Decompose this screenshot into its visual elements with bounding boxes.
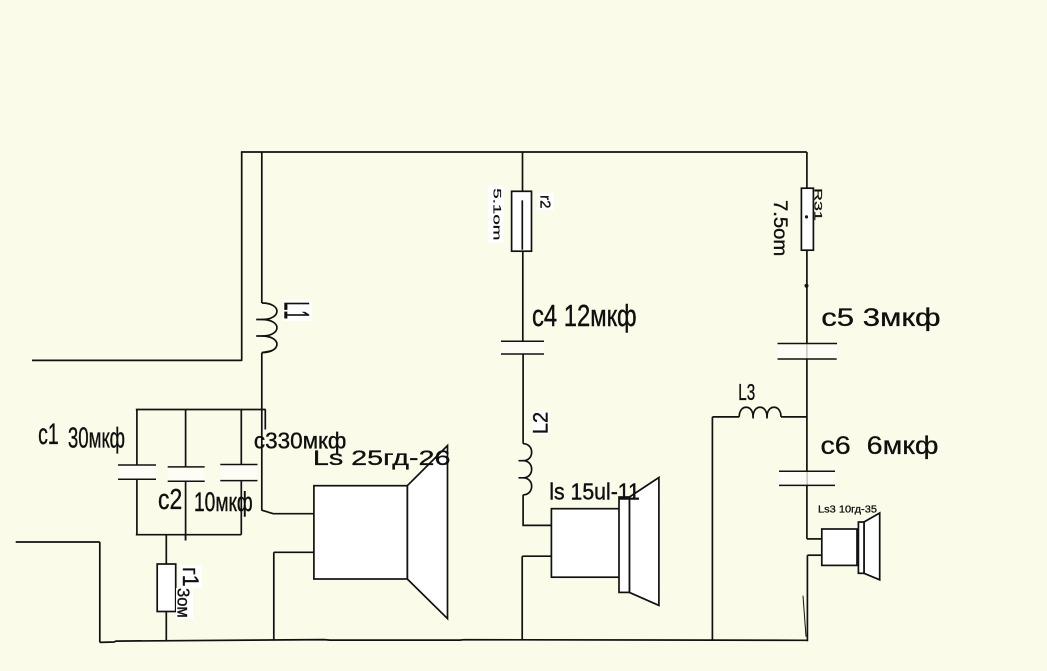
- wire L3 branch left: [712, 416, 739, 418]
- capacitor C2: [168, 410, 205, 541]
- stray stroke: [803, 596, 806, 637]
- wire R31 to c5: [806, 250, 808, 343]
- svg-text:R31: R31: [811, 188, 823, 221]
- svg-text:г1: г1: [178, 567, 204, 587]
- wire top rail: [241, 151, 807, 153]
- label L1 white backing: [283, 300, 312, 321]
- wire c4 to L2: [522, 354, 524, 444]
- stub below C2: [185, 535, 187, 541]
- label c5 3мкф: [821, 304, 940, 333]
- wire L2 to midrange: [523, 495, 551, 526]
- capacitor C6: [779, 471, 835, 485]
- wire tweeter plus: [807, 538, 822, 540]
- svg-text:L2: L2: [529, 412, 553, 434]
- label c2: [158, 485, 182, 516]
- wire to woofer plus: [262, 510, 314, 514]
- label г1 white backing: [179, 565, 202, 588]
- svg-text:c1: c1: [38, 418, 59, 451]
- label 3ом white backing: [176, 588, 193, 619]
- label L2 white backing: [532, 411, 550, 434]
- svg-text:c2: c2: [158, 485, 182, 516]
- capacitor C5: [778, 344, 838, 360]
- speaker LS2 horn: [629, 478, 659, 606]
- wire L1 branch upper: [261, 152, 263, 303]
- wire tweeter minus drop: [806, 555, 808, 641]
- label c3 30мкф: [254, 427, 346, 454]
- inductor L1: [256, 303, 277, 353]
- label 7.5om: [769, 200, 790, 256]
- label c1: [38, 418, 59, 451]
- inductor L2: [519, 444, 532, 495]
- wire woofer minus drop: [273, 552, 275, 640]
- capacitor bank top wire: [136, 409, 266, 411]
- wire r2 to c4: [522, 251, 524, 341]
- label 5.1om: [490, 188, 502, 240]
- label L2: [529, 412, 553, 434]
- wire woofer minus: [274, 551, 314, 553]
- label ls 15ul-11: [549, 479, 640, 505]
- wire c5 to c6: [806, 359, 808, 471]
- svg-text:3ом: 3ом: [173, 588, 192, 618]
- speaker LS1 woofer body: [314, 486, 407, 579]
- wire bottom rail: [100, 640, 807, 643]
- stub at bank top right: [264, 410, 266, 430]
- resistor R1 lead top: [165, 535, 167, 564]
- label c6 6мкф: [820, 432, 938, 460]
- resistor R31 (7.5om): [801, 188, 813, 250]
- wire midrange minus drop: [521, 556, 523, 640]
- resistor R2 (5.1om): [512, 191, 532, 251]
- svg-text:c4 12мкф: c4 12мкф: [532, 298, 637, 333]
- wire c6 to tweeter: [806, 485, 808, 539]
- wire input plus riser: [241, 152, 243, 361]
- label Ls3 10гд-35: [818, 504, 877, 516]
- wire midrange minus: [522, 555, 551, 557]
- speaker LS2 magnet bar: [619, 497, 629, 592]
- speaker LS3 horn: [864, 513, 880, 580]
- svg-text:L3: L3: [738, 380, 755, 406]
- label 3ом: [173, 588, 192, 618]
- resistor R31 dot: [805, 215, 808, 218]
- svg-text:7.5om: 7.5om: [769, 200, 790, 256]
- label L1: [277, 302, 317, 320]
- svg-text:ls 15ul-11: ls 15ul-11: [549, 479, 640, 505]
- speaker LS3 magnet bar: [858, 522, 864, 573]
- label г1: [178, 567, 204, 587]
- wire r2 branch: [522, 152, 524, 191]
- capacitor C4: [501, 341, 544, 354]
- speaker LS3 tweeter body: [822, 529, 857, 565]
- wire L3 drop: [711, 417, 713, 641]
- label L3: [738, 380, 755, 406]
- svg-text:r2: r2: [536, 195, 553, 208]
- svg-text:L1: L1: [277, 302, 317, 320]
- wire tweeter minus: [807, 554, 821, 556]
- label c2 value 10мкф: [194, 487, 253, 517]
- speaker LS1 woofer horn: [407, 446, 447, 619]
- speaker LS2 midrange body: [551, 509, 622, 578]
- wire L3 branch right: [781, 416, 807, 418]
- svg-text:5.1om: 5.1om: [490, 188, 502, 240]
- inductor L3: [739, 407, 781, 418]
- capacitor bank bottom wire: [136, 534, 242, 536]
- wire R31 branch: [806, 152, 808, 188]
- wire input plus terminal: [32, 359, 242, 361]
- svg-text:30мкф: 30мкф: [68, 423, 125, 455]
- label 5.1om white backing: [488, 185, 504, 243]
- label Ls 25гд-26: [313, 446, 451, 470]
- svg-text:Ls 25гд-26: Ls 25гд-26: [313, 446, 451, 470]
- resistor R1 lead bottom: [165, 612, 167, 641]
- label c1 value 30мкф: [68, 423, 125, 455]
- label r2 white backing: [537, 193, 554, 210]
- junction dot: [805, 284, 809, 288]
- wire input minus riser: [99, 542, 101, 642]
- capacitor C3: [220, 410, 257, 535]
- svg-text:c5 3мкф: c5 3мкф: [821, 304, 940, 333]
- svg-text:Ls3 10гд-35: Ls3 10гд-35: [818, 504, 877, 516]
- label R31: [811, 188, 823, 221]
- label c4 12мкф: [532, 298, 637, 333]
- svg-text:c6 6мкф: c6 6мкф: [820, 432, 938, 460]
- wire input minus terminal: [16, 541, 100, 543]
- svg-text:10мкф: 10мкф: [194, 487, 253, 517]
- wire L1 branch lower: [261, 353, 263, 511]
- resistor R1 (г1 3ом): [157, 564, 176, 612]
- label r2: [536, 195, 553, 208]
- capacitor C1: [118, 410, 156, 535]
